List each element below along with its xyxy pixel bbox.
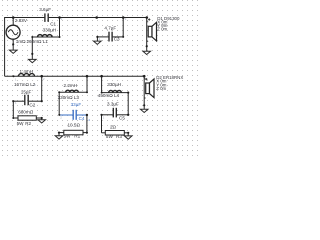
svg-text:260mΩ L1: 260mΩ L1 <box>27 39 49 44</box>
svg-text:4.7µF: 4.7µF <box>104 25 116 30</box>
svg-text:330mΩ L3: 330mΩ L3 <box>58 95 80 100</box>
svg-text:330µH: 330µH <box>107 82 121 87</box>
svg-text:5W: 5W <box>64 134 72 139</box>
svg-text:C3: C3 <box>114 37 120 42</box>
svg-text:3.6µF: 3.6µF <box>39 7 51 12</box>
svg-text:C5: C5 <box>119 115 125 120</box>
svg-text:167mΩ L2: 167mΩ L2 <box>14 82 36 87</box>
svg-text:C4: C4 <box>79 116 85 121</box>
svg-text:680mΩ: 680mΩ <box>18 109 33 114</box>
svg-text:5W: 5W <box>106 134 114 139</box>
svg-text:2.83V: 2.83V <box>15 18 28 23</box>
svg-text:450mΩ L4: 450mΩ L4 <box>98 93 120 98</box>
svg-text:10.5Ω: 10.5Ω <box>68 123 81 128</box>
svg-text:2Ω: 2Ω <box>110 125 117 130</box>
svg-text:R1: R1 <box>74 134 80 139</box>
svg-text:15µF: 15µF <box>21 89 32 94</box>
svg-text:1.4mH: 1.4mH <box>20 69 34 74</box>
svg-text:R2: R2 <box>25 121 31 126</box>
svg-text:C1: C1 <box>50 22 56 27</box>
svg-text:330µH: 330µH <box>43 28 57 33</box>
svg-text:R3: R3 <box>116 134 122 139</box>
svg-text:2.2mH: 2.2mH <box>64 83 78 88</box>
svg-text:3.3µF: 3.3µF <box>107 102 119 107</box>
svg-text:Z 0m: Z 0m <box>156 86 166 91</box>
svg-text:C2: C2 <box>29 102 35 107</box>
svg-text:Z 0m: Z 0m <box>157 27 167 32</box>
svg-text:1mΩ: 1mΩ <box>16 39 26 44</box>
svg-text:5W: 5W <box>17 121 25 126</box>
svg-text:33µF: 33µF <box>71 102 82 107</box>
